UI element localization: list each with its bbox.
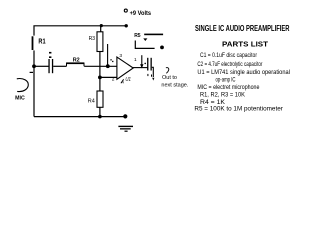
wire mic tick	[30, 72, 33, 73]
wire rail down to R3	[100, 26, 102, 32]
svg-text:U1 = LM741 single audio operat: U1 = LM741 single audio operational	[197, 70, 290, 76]
potentiometer R5 wiper tick	[143, 38, 147, 41]
svg-text:next stage.: next stage.	[161, 83, 188, 89]
microphone MIC	[17, 79, 29, 92]
node rail dot under R4	[98, 115, 102, 119]
svg-text:R4: R4	[88, 99, 95, 105]
node rail end dot	[123, 114, 127, 118]
wire top supply rail	[35, 25, 126, 27]
node +9V terminal	[124, 9, 127, 12]
wire junction down to ground rail	[33, 66, 35, 116]
svg-text:3: 3	[119, 53, 122, 59]
wire R5 L-shaped lead	[135, 41, 154, 49]
svg-text:MIC: MIC	[15, 95, 25, 101]
wire pin2 node down to R4	[99, 77, 101, 91]
svg-text:R5: R5	[134, 33, 140, 39]
svg-text:R2: R2	[73, 57, 80, 63]
resistor R3	[97, 32, 103, 52]
svg-text:+9 Volts: +9 Volts	[130, 10, 152, 17]
wire floating vertical into mid wire	[107, 44, 109, 66]
svg-text:R1: R1	[38, 37, 45, 46]
wire C1 to R2	[53, 65, 66, 67]
svg-text:R5 = 100K to 1M potentiometer: R5 = 100K to 1M potentiometer	[194, 107, 283, 113]
svg-text:MIC = electret microphone: MIC = electret microphone	[197, 85, 260, 91]
potentiometer R5 body bar	[144, 34, 163, 36]
node pin2 junction dot	[98, 76, 102, 80]
pin specks near 3	[110, 59, 111, 60]
wire R3 down to pin2 node	[99, 52, 101, 78]
wire junction to C1	[34, 65, 49, 67]
wire R2 to op-amp input	[84, 65, 117, 67]
wire curved arrow to output label	[166, 68, 169, 74]
wire left vertical from rail to R1	[34, 26, 35, 36]
capacitor C1	[48, 59, 49, 73]
wire op-amp output to C2	[133, 67, 147, 69]
svg-text:R4 = 1K: R4 = 1K	[200, 100, 225, 106]
resistor R1	[32, 36, 34, 50]
node R5 dot	[160, 46, 164, 50]
svg-text:Out to: Out to	[162, 75, 177, 81]
svg-text:R3: R3	[89, 36, 96, 42]
svg-text:1: 1	[134, 57, 137, 63]
node junction R1/C1/MIC	[32, 64, 36, 68]
wire pin2 to op-amp	[100, 76, 117, 78]
svg-text:SINGLE IC AUDIO PREAMPLIFIER: SINGLE IC AUDIO PREAMPLIFIER	[195, 24, 290, 33]
ground	[118, 126, 133, 127]
label C1 (two dashes)	[49, 52, 51, 54]
svg-text:op-amp IC: op-amp IC	[216, 77, 236, 83]
node dot on mid wire	[106, 64, 110, 68]
svg-text:C2 = 4.7uF electrolytic capaci: C2 = 4.7uF electrolytic capacitor	[197, 62, 262, 68]
node rail junction to R3	[100, 24, 103, 27]
resistor R2	[66, 62, 84, 64]
node speck near C2	[144, 63, 146, 65]
svg-text:C1 = 0.1uF disc capacitor: C1 = 0.1uF disc capacitor	[200, 53, 257, 59]
wire R4 to ground rail	[99, 107, 101, 116]
node rail end dot	[125, 24, 128, 27]
capacitor C2	[147, 58, 148, 71]
wire down arrow onto output	[141, 55, 143, 64]
svg-text:U1: U1	[125, 77, 131, 83]
op-amp U1	[117, 57, 133, 79]
wire R1 to C1 junction	[33, 50, 35, 66]
svg-text:2: 2	[112, 77, 115, 83]
resistor R4	[97, 91, 103, 107]
label C2 ticks below	[147, 74, 148, 76]
wire C2 output elbow down	[152, 67, 154, 77]
svg-text:PARTS LIST: PARTS LIST	[222, 39, 268, 48]
wire ground rail	[34, 116, 126, 118]
svg-text:R1, R2, R3 = 10K: R1, R2, R3 = 10K	[200, 92, 245, 98]
